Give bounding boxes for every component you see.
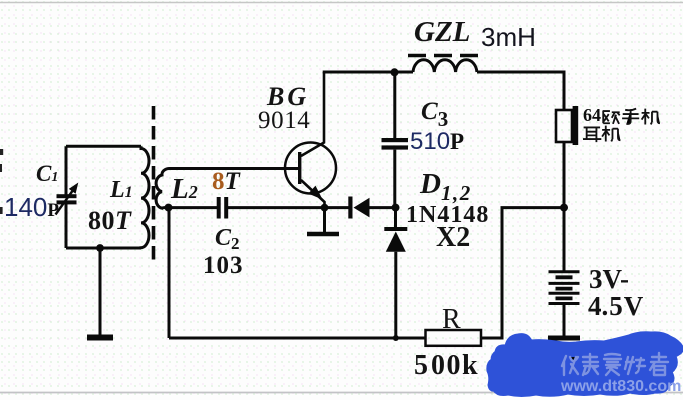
wire: bottom rail	[169, 337, 425, 340]
inductor L1 coil	[141, 146, 149, 248]
node: D junction	[392, 204, 400, 212]
transistor base bar	[298, 152, 301, 184]
capacitor C2	[217, 197, 229, 219]
inductor GZL (3mH choke)	[413, 60, 477, 72]
wire: junction to ground	[99, 248, 102, 335]
wire: L2 bottom down to bottom rail	[168, 208, 171, 338]
label GZL	[414, 16, 470, 49]
battery bottom terminal bar	[548, 336, 580, 341]
label L1	[110, 177, 133, 204]
transformer core (dashed line)	[152, 106, 156, 264]
label 4.5V	[588, 291, 644, 322]
仪	[562, 356, 578, 375]
label 103 value	[203, 252, 244, 280]
label D1,2	[420, 168, 472, 206]
label 9014	[258, 107, 310, 135]
wire: junction to battery	[563, 208, 566, 271]
label BG	[267, 82, 309, 112]
transistor BG (9014)	[285, 143, 336, 194]
node: L1 bottom junction	[96, 244, 104, 252]
wire: battery to bottom rail	[563, 305, 566, 336]
wire: R to right riser	[481, 208, 564, 338]
node: C3 top junction	[391, 68, 399, 76]
label 500k value	[414, 350, 479, 382]
top frame line	[0, 2, 683, 4]
ground (L1)	[87, 335, 113, 341]
wire: emitter row rail (L2 junction to C2)	[169, 206, 218, 209]
glyph 耳	[583, 127, 601, 142]
好	[625, 357, 645, 374]
爱	[604, 354, 621, 375]
label 1N4148	[406, 202, 489, 229]
node: D2 bottom junction	[393, 335, 399, 341]
ground (emitter bar)	[307, 232, 339, 237]
wire: C3 branch vertical	[393, 72, 396, 208]
wire: emitter junction down	[323, 208, 326, 232]
node: L2 bottom junction	[165, 204, 173, 212]
battery BT (3V-4.5V) plates	[549, 272, 580, 304]
transistor collector lead	[301, 72, 324, 156]
label 80T value	[88, 206, 131, 236]
wire: D1 to node	[369, 206, 396, 209]
wire: C2 to D1	[228, 206, 349, 209]
label C2	[215, 225, 240, 254]
label 510P value	[410, 128, 464, 156]
transistor emitter lead	[301, 180, 325, 208]
glyph 手 (of 手机)	[622, 109, 639, 124]
wire: earphone to junction	[563, 142, 566, 208]
glyph 机 (second)	[602, 126, 620, 142]
wire: C1/L1 tank loop	[66, 146, 141, 248]
GZL core dashes	[408, 54, 480, 57]
watermark glyphs 仪表爱好者	[562, 353, 668, 375]
glyph 机 (first)	[642, 109, 660, 125]
wire: GZL to earphone drop	[477, 72, 564, 110]
label 3V-	[589, 264, 629, 295]
glyph 欧	[603, 111, 620, 124]
label X2	[436, 222, 470, 254]
watermark blue blob	[488, 333, 683, 396]
wire: D junction through D2 to bottom rail	[394, 208, 397, 338]
watermark url text	[560, 378, 681, 395]
label 64 ohm earphone (Chinese)	[583, 105, 601, 126]
capacitor C1 (variable) plates	[57, 194, 77, 204]
bottom frame line	[0, 392, 683, 394]
label 3mH	[481, 22, 536, 53]
label C3	[421, 98, 448, 132]
emitter arrowhead	[308, 186, 322, 200]
者	[650, 353, 668, 375]
label R	[442, 304, 461, 336]
diode D1	[348, 197, 369, 219]
label 8T value	[212, 168, 240, 196]
wire: L2 top to transistor base	[176, 167, 298, 170]
diode D2	[384, 227, 407, 252]
capacitor C3	[382, 138, 409, 150]
表	[583, 354, 598, 375]
node: earphone/battery junction	[560, 204, 568, 212]
resistor R body	[426, 330, 482, 346]
earphone (64 ohm) body	[556, 110, 572, 142]
capacitor C1 arrow	[56, 183, 79, 215]
label C1	[36, 161, 58, 187]
earphone thick bar	[573, 106, 579, 145]
inductor L2 coil	[156, 169, 177, 209]
node: emitter junction	[321, 204, 329, 212]
wire: top rail from collector to GZL	[323, 71, 413, 74]
label 140P value	[4, 192, 59, 223]
label L2	[171, 173, 198, 206]
edge artifacts left	[0, 149, 3, 214]
